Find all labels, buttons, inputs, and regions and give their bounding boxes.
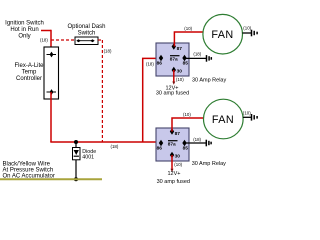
- pin 85: [182, 55, 186, 61]
- wire black/yellow pressure switch wire: [0, 178, 102, 180]
- wire bus riser to relay1 pin 86: [143, 58, 161, 142]
- svg-text:(18): (18): [146, 61, 154, 66]
- wire relay1 87 to fan1: [174, 32, 203, 47]
- fan M2 circle: [204, 99, 244, 139]
- wire dashed vertical down to bus: [101, 40, 103, 142]
- label Ignition Switch Hot in Run Only: [5, 21, 44, 40]
- pin 86: [159, 140, 163, 146]
- svg-text:FAN: FAN: [211, 29, 233, 41]
- ground fan1: [252, 30, 258, 37]
- wire fan1 to ground: [242, 32, 251, 34]
- switch S1 bar: [79, 40, 93, 42]
- pin 30: [170, 152, 174, 158]
- svg-text:(18): (18): [193, 137, 201, 142]
- svg-text:Flex-A-Lite: Flex-A-Lite: [14, 63, 44, 69]
- wire main bus horizontal: [50, 141, 156, 143]
- node diode to black/yellow wire junction: [74, 177, 78, 181]
- fan M1 circle: [203, 14, 243, 54]
- svg-text:30 amp fused: 30 amp fused: [156, 91, 189, 97]
- wire temp controller to bus: [50, 92, 52, 142]
- contact 87a: [168, 140, 178, 142]
- svg-text:87: 87: [177, 46, 183, 52]
- svg-text:30 Amp Relay: 30 Amp Relay: [192, 161, 226, 167]
- svg-text:86: 86: [157, 60, 163, 66]
- svg-text:87: 87: [175, 131, 181, 137]
- pin 30: [172, 67, 176, 73]
- diode D1 4001: [73, 148, 81, 160]
- ground relay2 85: [206, 140, 211, 147]
- svg-text:Ignition Switch: Ignition Switch: [5, 21, 44, 27]
- svg-text:30: 30: [177, 69, 183, 75]
- label 12V+ 30 amp fused lower: [157, 171, 190, 185]
- svg-text:(10): (10): [243, 110, 251, 115]
- wire relay2 85 to ground: [184, 142, 206, 144]
- label Diode 4001: [82, 149, 96, 161]
- svg-text:30 amp fused: 30 amp fused: [157, 179, 190, 185]
- svg-text:Controller: Controller: [16, 76, 42, 82]
- switch S1 terminal left: [76, 39, 80, 42]
- wire relay1 85 to ground: [184, 57, 206, 59]
- pin 85: [182, 140, 186, 146]
- svg-text:30 Amp Relay: 30 Amp Relay: [192, 77, 226, 83]
- temp controller U3 box: [44, 47, 59, 99]
- svg-text:Only: Only: [18, 34, 30, 40]
- pin 87: [170, 128, 174, 134]
- svg-text:87a: 87a: [168, 141, 176, 147]
- switch S1 box: [75, 37, 98, 45]
- wire relay1 30 to 12V+: [173, 70, 175, 83]
- wire fan2 to ground: [243, 116, 251, 118]
- svg-text:(18): (18): [111, 144, 119, 149]
- svg-text:(18): (18): [104, 48, 112, 53]
- svg-text:FAN: FAN: [212, 114, 234, 126]
- svg-text:Switch: Switch: [78, 31, 96, 37]
- svg-text:(10): (10): [243, 26, 251, 31]
- svg-text:(18): (18): [40, 37, 48, 42]
- svg-text:30: 30: [175, 154, 181, 160]
- svg-text:86: 86: [157, 145, 163, 151]
- wire dashed to optional dash switch: [51, 39, 75, 41]
- label Optional Dash Switch: [67, 24, 105, 37]
- ground relay1 85: [207, 55, 212, 62]
- pin 86: [159, 55, 163, 61]
- label Black/Yellow Wire At Pressure Switch On AC Accumulator: [3, 162, 55, 180]
- wire diode branch vertical: [75, 142, 77, 179]
- temp controller terminal bottom: [47, 89, 57, 95]
- wire ignition feed horizontal: [41, 30, 51, 32]
- svg-text:On AC Accumulator: On AC Accumulator: [3, 174, 55, 180]
- relay U2 30 amp relay: [156, 128, 189, 161]
- label 12V+ 30 amp fused upper: [156, 85, 189, 96]
- wire relay2 87 to fan2: [172, 118, 204, 132]
- wire ignition feed vertical to temp controller: [50, 30, 52, 55]
- relay U1 30 amp relay: [156, 43, 189, 76]
- svg-text:(10): (10): [176, 77, 184, 82]
- label Flex-A-Lite Temp Controller: [14, 63, 44, 82]
- svg-text:(10): (10): [184, 26, 192, 31]
- svg-text:85: 85: [183, 145, 189, 151]
- svg-text:4001: 4001: [82, 155, 94, 161]
- svg-text:Temp: Temp: [22, 70, 37, 76]
- temp controller terminal top: [47, 52, 57, 58]
- pin 87: [172, 43, 176, 49]
- contact 87a: [170, 55, 180, 57]
- svg-text:87a: 87a: [170, 56, 178, 62]
- svg-text:12V+: 12V+: [168, 171, 181, 177]
- wire relay2 30 to 12V+: [171, 155, 173, 170]
- svg-text:Hot in Run: Hot in Run: [10, 27, 38, 33]
- svg-text:Optional Dash: Optional Dash: [67, 24, 105, 30]
- node diode tap junction: [74, 140, 78, 144]
- svg-text:(18): (18): [193, 52, 201, 57]
- wire dashed from switch to corner: [98, 39, 102, 41]
- ground fan2: [252, 114, 258, 121]
- svg-text:85: 85: [183, 60, 189, 66]
- svg-text:(10): (10): [183, 112, 191, 117]
- svg-text:(10): (10): [174, 162, 182, 167]
- switch S1 terminal right: [90, 39, 94, 42]
